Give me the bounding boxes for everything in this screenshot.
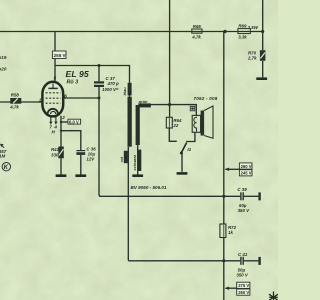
svg-text:Rö 3: Rö 3 — [67, 80, 79, 86]
tube V1 EL95 envelope — [42, 82, 63, 117]
svg-text:b19: b19 — [0, 55, 7, 60]
wire: 255V box to plate node, down to tube pin5 — [54, 59, 56, 82]
speaker LS1 — [192, 106, 213, 138]
svg-text:6,0 V: 6,0 V — [69, 119, 79, 124]
resistor R58 4,7k — [9, 93, 21, 110]
wire: C36 to ground — [80, 155, 82, 175]
corner star mark — [269, 292, 278, 300]
wire: cathode pin2 down — [60, 116, 62, 147]
svg-text:1M: 1M — [0, 154, 6, 159]
svg-text:R65: R65 — [193, 24, 202, 29]
transformer primary winding — [128, 97, 132, 147]
resistor R70 2,7k — [247, 50, 265, 61]
wire: grid pin1 from left edge — [0, 101, 42, 103]
ground (transformer secondary) — [132, 174, 143, 177]
wire color label rot/RED — [119, 151, 128, 163]
ground (switch) — [177, 172, 188, 175]
resistor R65 4,7k — [191, 24, 202, 39]
svg-text:R58: R58 — [11, 93, 20, 98]
wire: 255V drop from bus — [54, 32, 56, 52]
wire: speaker bottom lead — [186, 133, 195, 142]
svg-text:260 V: 260 V — [238, 290, 249, 295]
svg-text:1000 V=: 1000 V= — [102, 87, 119, 92]
wire: top supply bus — [0, 31, 263, 33]
resistor R64 22 — [166, 117, 182, 128]
wire: C37 top branch — [98, 66, 100, 82]
svg-text:blau: blau — [122, 87, 127, 96]
svg-text:4,7k: 4,7k — [9, 105, 19, 110]
pin number labels — [39, 76, 67, 135]
wire: C36 branch — [61, 131, 81, 150]
svg-text:260 V: 260 V — [241, 164, 252, 169]
svg-text:I1: I1 — [187, 147, 191, 152]
6,0V box — [68, 119, 81, 124]
svg-text:RED: RED — [124, 155, 128, 163]
resistor R69 3,3k 2,5W — [238, 24, 259, 40]
svg-text:GREEN: GREEN — [139, 104, 152, 108]
wire: secondary bottom (schwarz) to ground — [137, 145, 139, 175]
wire: R70 to ground — [262, 61, 264, 77]
svg-text:470 p: 470 p — [107, 81, 120, 86]
svg-text:EL 95: EL 95 — [66, 69, 89, 79]
resistor R57 1M label (off page) — [0, 144, 7, 159]
node K circle — [2, 163, 10, 171]
wire: C37 down to 260V bus — [99, 87, 240, 197]
tube grids (dashed) — [46, 93, 61, 103]
svg-text:330: 330 — [51, 152, 59, 157]
wire: C41 right lead — [244, 260, 259, 262]
svg-text:6: 6 — [64, 93, 67, 98]
svg-text:b20: b20 — [0, 66, 7, 71]
capacitor C36 10u 12V — [76, 147, 96, 162]
wire: plate wire to transformer — [55, 66, 130, 97]
wire color label blau/BLUE — [122, 83, 132, 96]
svg-text:C 41: C 41 — [238, 252, 248, 257]
wire: R41 to ground — [60, 158, 62, 174]
heater pin stubs with arrows — [49, 117, 57, 125]
wire: main vertical rail — [223, 32, 225, 225]
wire: right rail from top edge to R70 — [262, 0, 264, 50]
svg-text:schwarz: schwarz — [132, 155, 137, 171]
ground (R41) — [56, 174, 67, 177]
svg-text:7052 - 008: 7052 - 008 — [194, 96, 218, 101]
svg-text:BLACK: BLACK — [138, 158, 142, 170]
resistor R41 330 — [51, 147, 64, 159]
transformer secondary winding — [136, 105, 140, 145]
arrowheads on voltage pointer lines — [225, 168, 230, 290]
svg-text:350 V: 350 V — [236, 272, 249, 277]
svg-text:2,5W: 2,5W — [247, 25, 259, 30]
tube cathode arcs — [48, 109, 58, 114]
wire: arrow line to 260/245V boxes — [226, 168, 240, 170]
wire: R64 branch down — [169, 105, 171, 118]
wire: switch pivot to ground — [181, 153, 183, 172]
capacitor C37 470p — [94, 76, 119, 92]
ground (C36) — [75, 174, 86, 177]
capacitor C41 50u 350V — [236, 252, 260, 277]
svg-text:BLUE: BLUE — [128, 85, 132, 95]
svg-text:2,7k: 2,7k — [247, 55, 257, 60]
svg-text:5: 5 — [54, 76, 57, 81]
wire: R64 to switch contact — [169, 128, 177, 141]
wire: C39 right lead — [244, 195, 259, 197]
switch I1 — [180, 143, 192, 155]
voltage boxes 275V/260V — [237, 282, 250, 295]
ground (R70) — [256, 77, 267, 80]
svg-text:R69: R69 — [238, 24, 247, 29]
svg-text:275 V: 275 V — [238, 283, 249, 288]
svg-text:12V: 12V — [86, 156, 95, 161]
svg-text:22: 22 — [172, 123, 178, 128]
svg-text:255 V: 255 V — [54, 53, 67, 58]
svg-text:245 V: 245 V — [241, 171, 252, 176]
wire color label schwarz/BLACK — [132, 150, 142, 171]
resistor R72 1k — [220, 224, 237, 238]
255V box — [52, 51, 66, 59]
wire: screen grid pin6 — [63, 97, 99, 99]
wire: rail below R72 — [223, 238, 225, 300]
svg-text:BV 9060 - 506.01: BV 9060 - 506.01 — [131, 185, 167, 190]
svg-text:1k: 1k — [228, 230, 233, 235]
voltage boxes 260V/245V — [239, 163, 252, 176]
wire: feedback line from top edge — [169, 0, 171, 105]
svg-text:3,3k: 3,3k — [238, 34, 247, 39]
svg-text:350 V: 350 V — [238, 208, 251, 213]
wire: arrow line to 275/260V boxes — [226, 287, 237, 289]
svg-text:C 39: C 39 — [237, 187, 247, 192]
svg-text:1: 1 — [39, 98, 42, 103]
wire color label gruen/GREEN — [138, 99, 152, 108]
svg-text:2: 2 — [61, 115, 65, 120]
svg-text:4,7k: 4,7k — [191, 34, 201, 39]
tube anode — [48, 84, 57, 89]
speaker matching mark asterisk box — [190, 106, 194, 111]
capacitor C39 50u 350V — [237, 187, 260, 213]
svg-text:K: K — [4, 165, 9, 171]
wire: primary bottom (rot) down and right to 275V rail — [128, 147, 240, 261]
wire: secondary top (gruen) to speaker — [140, 105, 197, 116]
wire: 6,0V tap — [61, 121, 68, 123]
